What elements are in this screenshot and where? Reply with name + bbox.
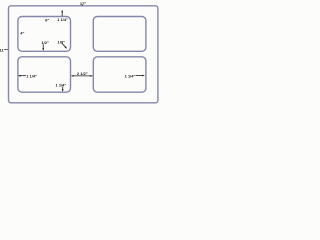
svg-text:1 1/4": 1 1/4" xyxy=(26,74,37,79)
svg-text:11": 11" xyxy=(0,47,6,52)
svg-text:4": 4" xyxy=(20,30,24,35)
sheet outline xyxy=(9,6,158,103)
corner radius diagonal arrow xyxy=(62,43,67,48)
row gap arrow down xyxy=(42,44,44,51)
label L4 bottom-right xyxy=(93,57,146,92)
svg-text:1/2": 1/2" xyxy=(41,40,49,45)
svg-text:1 1/4": 1 1/4" xyxy=(56,82,67,87)
tick 11 xyxy=(5,49,8,51)
label L3 bottom-left xyxy=(18,57,71,92)
svg-text:1/8": 1/8" xyxy=(57,39,65,44)
svg-text:6": 6" xyxy=(45,18,49,23)
right margin arrow right xyxy=(136,75,145,77)
svg-text:1 1/4": 1 1/4" xyxy=(57,17,68,22)
label L2 top-right xyxy=(93,17,146,52)
svg-text:17": 17" xyxy=(80,1,86,6)
left margin arrow left xyxy=(18,75,26,77)
label L1 top-left xyxy=(18,17,71,52)
bottom margin arrow down xyxy=(62,87,64,92)
tick 17 xyxy=(82,5,84,6)
column gap double arrow xyxy=(71,75,93,77)
svg-text:2 1/2": 2 1/2" xyxy=(77,71,88,76)
top margin arrow up xyxy=(61,10,63,16)
svg-text:1 1/4": 1 1/4" xyxy=(125,74,136,79)
